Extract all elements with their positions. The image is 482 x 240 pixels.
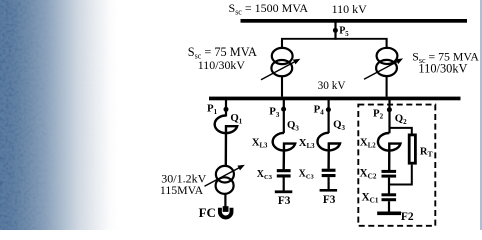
svg-text:XL3: XL3 [252,136,268,149]
svg-text:FC: FC [199,205,216,220]
svg-text:F3: F3 [278,195,291,207]
svg-text:P5: P5 [339,26,349,38]
svg-text:XL2: XL2 [360,137,376,150]
svg-text:110/30kV: 110/30kV [198,58,246,72]
svg-text:P3: P3 [269,106,280,119]
svg-text:XL3: XL3 [299,137,315,150]
svg-text:30 kV: 30 kV [318,80,347,92]
svg-text:XC3: XC3 [299,168,315,180]
svg-text:Ssc = 1500 MVA: Ssc = 1500 MVA [229,1,309,16]
svg-text:RT: RT [420,146,433,158]
svg-text:XC1: XC1 [362,191,379,204]
svg-text:F3: F3 [323,194,336,206]
svg-text:Q2: Q2 [395,113,407,126]
svg-text:XC3: XC3 [257,169,273,181]
svg-text:XC2: XC2 [360,168,377,181]
svg-text:P4: P4 [314,103,325,116]
svg-text:115MVA: 115MVA [160,183,204,197]
svg-text:Q1: Q1 [230,112,242,125]
svg-text:P2: P2 [373,107,384,120]
svg-text:110 kV: 110 kV [332,2,368,16]
svg-text:P1: P1 [207,103,218,116]
svg-text:Q3: Q3 [333,119,345,132]
svg-text:Q3: Q3 [287,119,299,132]
svg-text:110/30kV: 110/30kV [418,61,467,75]
svg-text:F2: F2 [401,211,414,223]
